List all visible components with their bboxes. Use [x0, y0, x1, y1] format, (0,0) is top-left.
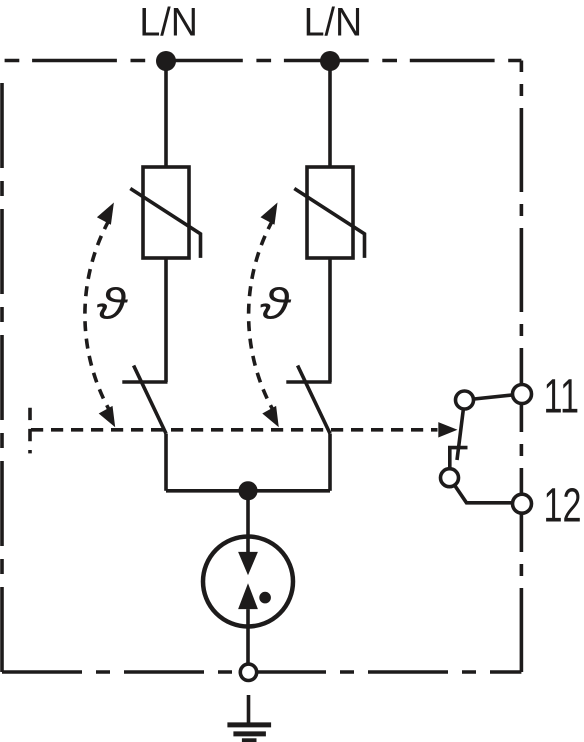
svg-text:L/N: L/N — [139, 1, 197, 45]
svg-text:11: 11 — [543, 368, 578, 422]
svg-text:L/N: L/N — [304, 1, 362, 45]
svg-text:ϑ: ϑ — [260, 279, 292, 328]
svg-text:ϑ: ϑ — [96, 279, 128, 328]
svg-text:12: 12 — [543, 478, 581, 532]
